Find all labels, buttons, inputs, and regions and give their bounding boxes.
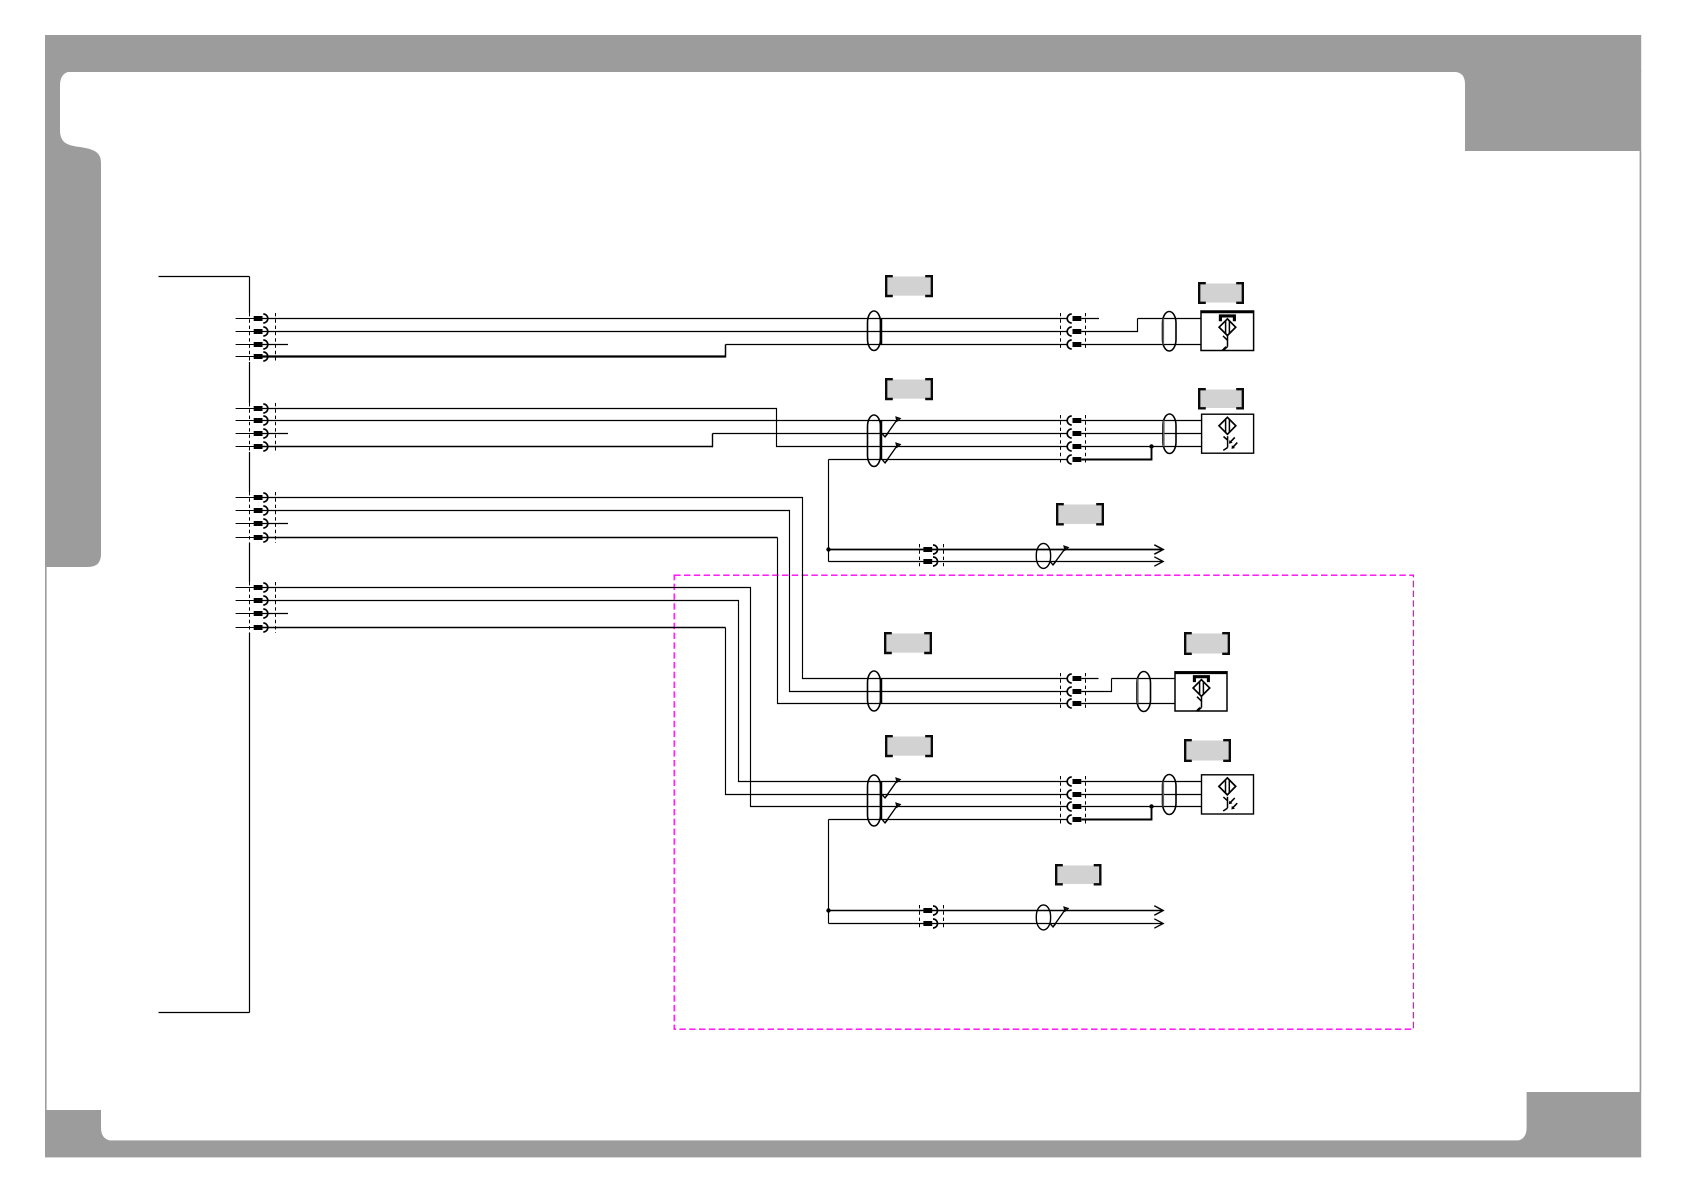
- connector CN5 pin 3: [1073, 342, 1082, 347]
- label plate PH4 name: [1187, 741, 1229, 761]
- wire D8 connector CN9 pin2 to sensor PH4: [1081, 794, 1201, 796]
- connector CN4 housing dashed boundary left: [249, 582, 251, 633]
- page frame bottom band: [45, 1140, 1641, 1157]
- connector CN8 pin 1: [1073, 676, 1082, 681]
- connector CN2 pin 2: [236, 420, 254, 422]
- connector CN8 pin 2: [1073, 689, 1082, 694]
- label plate PH2 name: [1201, 390, 1242, 409]
- wire B4 bus pin4 run: [263, 446, 713, 448]
- cable sleeve S10: [1036, 905, 1050, 930]
- wire C5 stub connector CN8 pin1: [1081, 678, 1098, 680]
- photo-emitter sensor PH1: [1201, 311, 1254, 351]
- main harness bus vertical segment 1: [249, 277, 251, 314]
- page frame left bar with tab: [45, 71, 115, 1141]
- wire B8 connector CN6 pin2 to sensor PH2: [1081, 433, 1201, 435]
- shielded cable S3: [868, 415, 881, 467]
- wire B6 drain drop to arrow bus: [828, 460, 830, 562]
- arrow head AR3: [1154, 906, 1163, 915]
- wire B2 bus pin2 to connector CN6: [263, 420, 1068, 422]
- main harness bus vertical segment 2: [249, 362, 251, 403]
- label plate W3: [887, 634, 930, 653]
- connector CN5 pin 2: [1073, 329, 1082, 334]
- connector CN4 pin 2: [236, 600, 254, 602]
- wire A3 stub bus pin3: [263, 344, 289, 346]
- connector CN3 pin 4: [236, 537, 254, 539]
- wire B4 step up: [712, 434, 714, 448]
- wire D7 connector CN9 pin1 to sensor PH4: [1081, 781, 1201, 783]
- connector CN8 housing dashed boundary right: [1085, 673, 1087, 709]
- connector CN9 housing dashed boundary left: [1060, 776, 1062, 825]
- cable sleeve S5: [1036, 543, 1050, 568]
- wire C3 stub bus pin3: [263, 523, 289, 525]
- connector CN1 pin 3: [236, 344, 254, 346]
- connector CN10 housing dashed boundary left: [919, 905, 921, 929]
- main harness bus vertical segment 5: [249, 633, 251, 1013]
- twisted pair mark D lower: [883, 804, 899, 823]
- label plate W2: [888, 380, 931, 399]
- connector CN2 pin 4: [236, 446, 254, 448]
- shielded cable S6: [868, 671, 881, 711]
- connector CN5 housing dashed boundary left: [1060, 313, 1062, 350]
- connector CN5 pin 1: [1073, 316, 1082, 321]
- shielded cable S7: [1137, 672, 1151, 712]
- wire A5 stub connector CN5 pin1: [1081, 318, 1099, 320]
- connector CN2 pin 1: [236, 408, 254, 410]
- connector CN10 housing dashed boundary right: [943, 905, 945, 929]
- connector CN6 pin 2: [1073, 431, 1082, 436]
- wire D1 bus pin2 down to row D: [263, 601, 1068, 782]
- wire D2 down to row D: [726, 628, 1068, 795]
- label plate W1: [888, 277, 931, 296]
- connector CN4 pin 3: [236, 613, 254, 615]
- wire B3 stub bus pin3: [263, 433, 289, 435]
- connector CN1 housing dashed boundary left: [249, 313, 251, 362]
- wire C2 bus pin2 down to row C: [263, 511, 1068, 692]
- junction node J1: [1149, 444, 1153, 448]
- wire D9 connector CN9 pin3 to sensor PH4: [1081, 806, 1201, 808]
- wire A4 to connector CN5: [726, 344, 1068, 346]
- connector CN1 pin 1: [236, 318, 254, 320]
- connector CN6 pin 3: [1073, 444, 1082, 449]
- wire D10 connector CN9 pin4 up to junction: [1081, 807, 1151, 820]
- connector CN2 housing dashed boundary right: [275, 403, 277, 452]
- wire B1 bus pin1 step down: [263, 409, 1068, 447]
- twisted pair mark B lower: [883, 444, 899, 463]
- shielded cable S2: [1163, 312, 1177, 352]
- wire C6 connector CN8 pin2 step to sensor: [1081, 679, 1111, 692]
- twisted pair mark B upper: [883, 418, 899, 437]
- wire AR2 line to frame ground arrow: [829, 561, 1164, 563]
- shielded cable S1: [868, 311, 881, 351]
- page frame right rule: [1640, 151, 1642, 1092]
- photo-receiver sensor PH4: [1202, 775, 1254, 814]
- photo-receiver sensor PH2: [1202, 414, 1254, 453]
- twisted pair mark AR: [1051, 547, 1067, 565]
- label plate GND1: [1059, 505, 1102, 525]
- wire B7 connector CN6 pin1 to sensor PH2: [1081, 420, 1201, 422]
- wire B4 to connector CN6: [713, 433, 1068, 435]
- junction node J2: [826, 547, 830, 551]
- connector CN3 pin 2: [236, 510, 254, 512]
- optional unit dashed outline: [674, 575, 1413, 1029]
- page frame top-right tab: [1453, 71, 1641, 151]
- arrow head AR2: [1154, 557, 1163, 566]
- shielded cable S9: [1163, 775, 1177, 815]
- wire C1 bus pin1 down to row C: [263, 498, 1068, 679]
- wire A1 bus pin1 to photo-emitter PH1: [263, 318, 1068, 320]
- main harness bus bracket bottom: [159, 1012, 250, 1014]
- wire A6 connector CN5 pin2 step to sensor: [1081, 319, 1137, 332]
- connector CN10 pin 1: [923, 908, 932, 913]
- wire C4 down to row C: [778, 538, 1068, 704]
- wire D2 bus pin4 run: [263, 627, 726, 629]
- connector CN7 pin 2: [923, 559, 932, 564]
- wire D5 shield drain to node T2: [829, 819, 1068, 821]
- connector CN3 housing dashed boundary left: [249, 492, 251, 543]
- wire A6 into sensor PH1: [1138, 318, 1202, 320]
- connector CN1 housing dashed boundary right: [275, 313, 277, 362]
- connector CN5 housing dashed boundary right: [1085, 313, 1087, 350]
- wire A4 bus pin4 run: [263, 355, 726, 357]
- connector CN3 housing dashed boundary right: [275, 492, 277, 543]
- shielded cable S4: [1163, 414, 1176, 454]
- connector CN10 pin 2: [923, 921, 932, 926]
- twisted pair mark AR2: [1051, 908, 1067, 927]
- photo-emitter sensor PH3: [1175, 672, 1227, 711]
- connector CN2 housing dashed boundary left: [249, 403, 251, 452]
- junction node J4: [826, 908, 830, 912]
- connector CN9 pin 3: [1073, 804, 1082, 809]
- wire AR1 line to frame ground arrow: [829, 549, 1164, 551]
- connector CN6 pin 1: [1073, 418, 1082, 423]
- junction node J3: [1149, 804, 1153, 808]
- main harness bus vertical segment 4: [249, 543, 251, 582]
- wire AR4 line to frame ground arrow: [829, 923, 1164, 925]
- connector CN3 pin 3: [236, 523, 254, 525]
- twisted pair mark D upper: [883, 779, 899, 798]
- wire A4 step up: [725, 345, 727, 358]
- label plate PH3 name: [1187, 634, 1228, 654]
- connector CN4 housing dashed boundary right: [275, 582, 277, 633]
- wire B5 shield drain to node T1: [829, 459, 1068, 461]
- arrow head AR4: [1154, 919, 1163, 928]
- connector CN1 pin 4: [236, 356, 254, 358]
- wire D6 drain drop to arrow bus: [828, 820, 830, 924]
- connector CN6 housing dashed boundary left: [1060, 415, 1062, 465]
- connector CN4 pin 4: [236, 627, 254, 629]
- label plate PH1 name: [1201, 284, 1242, 303]
- wire AR3 line to frame ground arrow: [829, 910, 1164, 912]
- page frame bottom-right tab: [1514, 1092, 1642, 1141]
- wire B10 connector CN6 pin4 up to junction: [1081, 447, 1151, 460]
- main harness bus vertical segment 3: [249, 452, 251, 492]
- connector CN7 pin 1: [923, 547, 932, 552]
- label plate GND2: [1058, 866, 1099, 885]
- connector CN6 pin 4: [1073, 457, 1082, 462]
- connector CN4 pin 1: [236, 587, 254, 589]
- wire A7 connector CN5 pin3 to sensor PH1: [1081, 344, 1201, 346]
- wire C4 bus pin4 run: [263, 537, 778, 539]
- connector CN1 pin 2: [236, 331, 254, 333]
- arrow head AR1: [1154, 545, 1163, 554]
- page frame top band: [45, 35, 1641, 72]
- wire C7 connector CN8 pin3 to sensor PH3: [1081, 703, 1175, 705]
- main harness bus bracket top: [159, 276, 250, 278]
- connector CN7 housing dashed boundary left: [919, 544, 921, 567]
- connector CN9 pin 1: [1073, 779, 1082, 784]
- connector CN8 housing dashed boundary left: [1060, 673, 1062, 709]
- label plate W4: [888, 737, 931, 756]
- connector CN6 housing dashed boundary right: [1085, 415, 1087, 465]
- wire A2 bus pin2 to connector CN5: [263, 331, 1068, 333]
- wire C6 into sensor PH3: [1112, 678, 1176, 680]
- connector CN2 pin 3: [236, 433, 254, 435]
- connector CN9 pin 4: [1073, 817, 1082, 822]
- wire D4 stub bus pin3: [263, 613, 289, 615]
- shielded cable S8: [868, 775, 881, 826]
- connector CN8 pin 3: [1073, 701, 1082, 706]
- wire D3 bus pin1 down to row D: [263, 588, 1068, 807]
- connector CN3 pin 1: [236, 497, 254, 499]
- connector CN9 housing dashed boundary right: [1085, 776, 1087, 825]
- connector CN9 pin 2: [1073, 792, 1082, 797]
- connector CN7 housing dashed boundary right: [943, 544, 945, 567]
- wire B9 connector CN6 pin3 to sensor PH2: [1081, 446, 1201, 448]
